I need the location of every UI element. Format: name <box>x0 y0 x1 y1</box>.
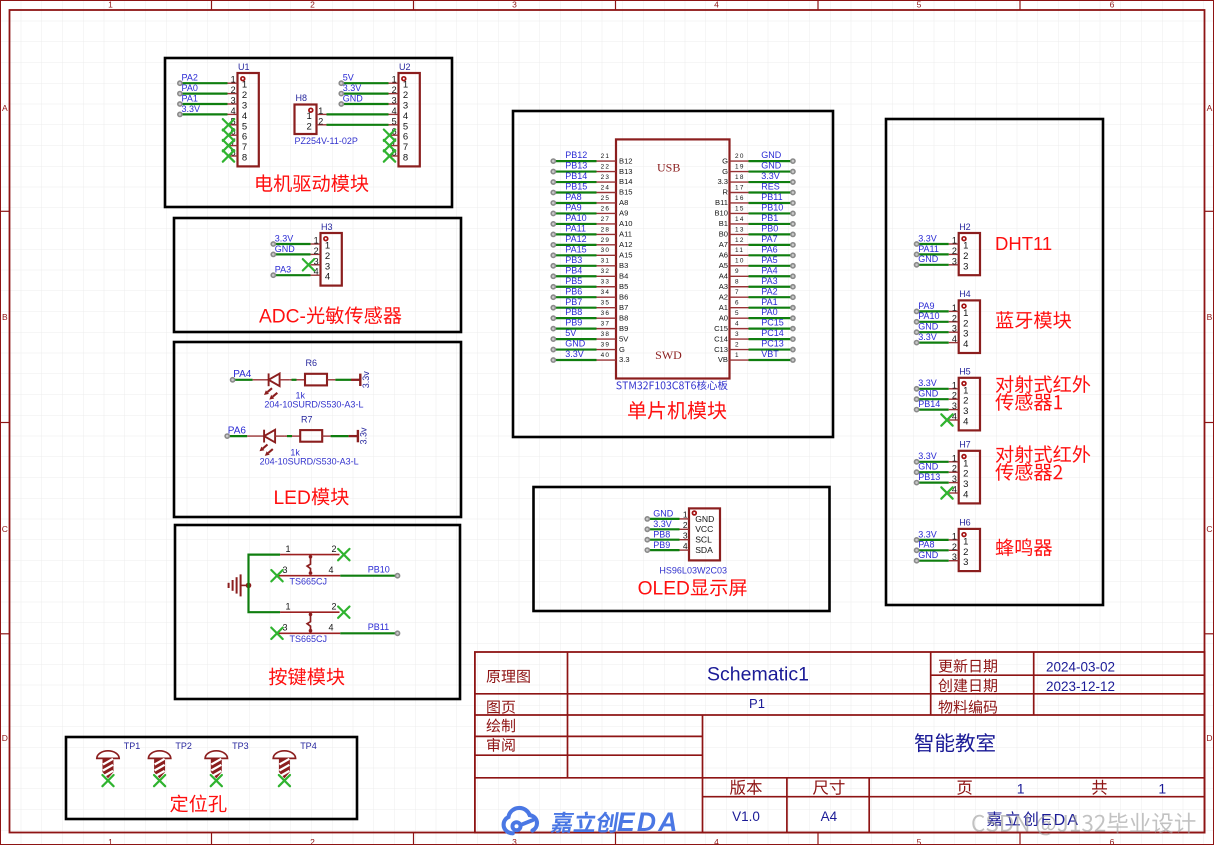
label 对射式红外传感器2 <box>996 445 1090 463</box>
svg-text:PA8: PA8 <box>565 192 581 202</box>
wire PA1 to MCU pin 6 <box>749 306 796 310</box>
svg-text:A4: A4 <box>719 272 728 281</box>
svg-text:204-10SURD/S530-A3-L: 204-10SURD/S530-A3-L <box>260 456 359 466</box>
svg-text:B10: B10 <box>714 209 728 218</box>
svg-text:1: 1 <box>314 236 319 246</box>
svg-text:1: 1 <box>952 236 957 246</box>
svg-text:1: 1 <box>952 453 957 463</box>
svg-text:USB: USB <box>657 160 680 174</box>
svg-text:3: 3 <box>952 256 957 266</box>
switch TS665CJ (PB11) <box>278 602 341 634</box>
svg-text:3: 3 <box>314 256 319 266</box>
svg-text:PC13: PC13 <box>761 339 784 349</box>
svg-text:11: 11 <box>735 247 744 254</box>
label 电机驱动模块 <box>256 174 368 192</box>
svg-text:6: 6 <box>403 132 408 143</box>
svg-text:1: 1 <box>231 75 236 85</box>
test point TP1 (mounting hole screw) <box>97 741 141 778</box>
wire PA8 to H6 pin 2 <box>915 548 949 552</box>
svg-text:C13: C13 <box>714 345 728 354</box>
test point TP3 (mounting hole screw) <box>205 741 249 778</box>
svg-text:4: 4 <box>714 837 719 845</box>
svg-text:H6: H6 <box>959 518 971 528</box>
svg-text:PB11: PB11 <box>761 192 782 202</box>
svg-text:14: 14 <box>735 216 745 223</box>
svg-text:TS665CJ: TS665CJ <box>290 576 328 586</box>
svg-text:4: 4 <box>231 106 236 116</box>
wire 3.3V to H2 pin 1 <box>915 242 949 246</box>
svg-text:1: 1 <box>392 75 397 85</box>
svg-text:B: B <box>1207 312 1213 322</box>
svg-text:PA8: PA8 <box>918 540 934 550</box>
svg-text:PB12: PB12 <box>565 150 587 160</box>
svg-text:2: 2 <box>952 313 957 323</box>
wire PA9 to H4 pin 1 <box>915 309 949 313</box>
svg-text:H3: H3 <box>321 222 333 232</box>
svg-text:A6: A6 <box>719 251 728 260</box>
svg-text:3: 3 <box>512 0 517 10</box>
svg-text:3: 3 <box>963 557 968 568</box>
svg-text:A3: A3 <box>719 282 728 291</box>
svg-text:A: A <box>1207 103 1213 113</box>
svg-text:8: 8 <box>403 153 408 164</box>
svg-text:PA4: PA4 <box>761 265 777 275</box>
connector H8 <box>295 93 327 134</box>
svg-text:1: 1 <box>318 106 323 116</box>
svg-text:27: 27 <box>601 216 611 223</box>
svg-text:4: 4 <box>683 541 688 551</box>
svg-text:GND: GND <box>565 339 586 349</box>
wire GND to H3 pin 2 <box>271 252 310 256</box>
svg-text:4: 4 <box>714 0 719 10</box>
wire GND to H4 pin 3 <box>915 330 949 334</box>
wire GND to H5 pin 2 <box>915 397 949 401</box>
label OLED显示屏 <box>638 579 747 600</box>
svg-text:39: 39 <box>601 342 611 349</box>
svg-text:A15: A15 <box>619 251 633 260</box>
svg-text:C14: C14 <box>714 334 728 343</box>
svg-text:2: 2 <box>325 251 330 262</box>
svg-text:4: 4 <box>329 565 334 575</box>
svg-text:7: 7 <box>403 142 408 153</box>
svg-text:B7: B7 <box>619 303 628 312</box>
wire GND to H7 pin 2 <box>915 470 949 474</box>
svg-text:PB3: PB3 <box>565 255 582 265</box>
svg-text:TP1: TP1 <box>124 741 141 751</box>
wire pin 4 to PB10 <box>340 574 399 578</box>
svg-text:2: 2 <box>403 90 408 101</box>
svg-text:1: 1 <box>1158 780 1166 796</box>
svg-text:16: 16 <box>735 195 745 202</box>
svg-text:PA10: PA10 <box>918 311 939 321</box>
svg-text:OLED: OLED <box>638 579 690 600</box>
svg-text:25: 25 <box>601 195 611 202</box>
svg-text:2: 2 <box>963 547 968 558</box>
svg-text:1: 1 <box>325 241 330 252</box>
wire 3.3V to MCU pin 40 <box>551 358 596 362</box>
svg-text:6: 6 <box>735 300 740 307</box>
svg-text:1: 1 <box>403 80 408 91</box>
svg-text:PA4: PA4 <box>233 369 252 380</box>
svg-text:1: 1 <box>1017 780 1025 796</box>
wire R6 to 3.3v <box>327 379 335 381</box>
svg-text:H2: H2 <box>959 222 971 232</box>
svg-text:4: 4 <box>952 334 957 344</box>
power 3.3v bar <box>349 427 369 445</box>
no-connect X on pin 2 <box>338 549 349 560</box>
wire GND to H2 pin 3 <box>915 263 949 267</box>
svg-text:PA7: PA7 <box>761 234 777 244</box>
svg-text:2: 2 <box>952 464 957 474</box>
svg-text:PA9: PA9 <box>918 301 934 311</box>
svg-text:3.3V: 3.3V <box>343 83 362 93</box>
svg-text:PA10: PA10 <box>565 213 586 223</box>
svg-text:PB1: PB1 <box>761 213 778 223</box>
svg-text:1: 1 <box>242 80 247 91</box>
svg-text:GND: GND <box>653 509 674 519</box>
wire PB14 to MCU pin 23 <box>551 180 596 184</box>
no-connect X on H7 pin 4 <box>941 487 952 498</box>
svg-text:5: 5 <box>917 837 922 845</box>
svg-text:A4: A4 <box>821 809 838 824</box>
svg-text:13: 13 <box>735 226 745 233</box>
wire GND to MCU pin 19 <box>749 169 796 173</box>
wire GND to U2 pin 3 <box>339 102 388 106</box>
svg-text:1: 1 <box>963 458 968 469</box>
svg-text:2: 2 <box>963 318 968 329</box>
svg-text:PA6: PA6 <box>761 244 777 254</box>
svg-text:GND: GND <box>918 462 939 472</box>
svg-text:1: 1 <box>285 602 290 612</box>
svg-text:TS665CJ: TS665CJ <box>290 634 328 644</box>
svg-text:PB0: PB0 <box>761 224 778 234</box>
svg-text:PB13: PB13 <box>918 472 940 482</box>
svg-text:24: 24 <box>601 184 611 191</box>
wire PB11 to MCU pin 16 <box>749 201 796 205</box>
svg-text:PA11: PA11 <box>918 244 939 254</box>
wire 3.3V to H4 pin 4 <box>915 341 949 345</box>
svg-text:2: 2 <box>952 246 957 256</box>
no-connect X on pin 3 <box>271 570 282 581</box>
wire LED anode to R6 <box>292 379 297 381</box>
svg-text:2: 2 <box>952 391 957 401</box>
svg-text:PZ254V-11-02P: PZ254V-11-02P <box>295 136 358 146</box>
svg-text:PB13: PB13 <box>565 161 587 171</box>
svg-text:5V: 5V <box>565 328 576 338</box>
wire 3.3V to OLED pin 2 <box>645 527 679 531</box>
svg-text:PB9: PB9 <box>653 540 670 550</box>
wire PA6 to MCU pin 11 <box>749 253 796 257</box>
svg-text:6: 6 <box>242 132 247 143</box>
svg-text:2: 2 <box>963 251 968 262</box>
svg-text:H7: H7 <box>959 440 971 450</box>
svg-text:EDA: EDA <box>617 807 680 837</box>
svg-text:SDA: SDA <box>695 545 713 555</box>
module box ADC-光敏传感器 <box>174 218 461 332</box>
wire PA6 to LED cathode <box>225 434 247 438</box>
svg-text:4: 4 <box>325 272 330 283</box>
svg-text:GND: GND <box>343 93 364 103</box>
module box 定位孔 <box>66 737 357 819</box>
wire PA0 to U1 pin 2 <box>178 92 228 96</box>
wire PB3 to MCU pin 31 <box>551 264 596 268</box>
svg-text:GND: GND <box>918 389 939 399</box>
svg-text:RES: RES <box>761 182 780 192</box>
svg-text:30: 30 <box>601 247 611 254</box>
power 3.3v bar <box>351 371 371 389</box>
svg-text:2: 2 <box>392 85 397 95</box>
svg-text:36: 36 <box>601 310 611 317</box>
connector U2 <box>389 62 420 167</box>
svg-text:1: 1 <box>735 352 740 359</box>
svg-text:4: 4 <box>735 321 740 328</box>
wire PA11 to H2 pin 2 <box>915 252 949 256</box>
svg-text:TP4: TP4 <box>300 741 317 751</box>
svg-text:4: 4 <box>952 412 957 422</box>
svg-text:2: 2 <box>332 602 337 612</box>
project name 智能教室 <box>915 733 995 752</box>
svg-text:2: 2 <box>963 396 968 407</box>
svg-text:A9: A9 <box>619 209 628 218</box>
svg-text:37: 37 <box>601 321 611 328</box>
wire PA9 to MCU pin 26 <box>551 211 596 215</box>
svg-text:Schematic1: Schematic1 <box>707 664 809 686</box>
svg-text:PA1: PA1 <box>182 93 198 103</box>
svg-text:4: 4 <box>403 111 408 122</box>
svg-text:26: 26 <box>601 205 611 212</box>
svg-text:PB9: PB9 <box>565 318 582 328</box>
JLC EDA logo <box>504 807 680 837</box>
svg-text:7: 7 <box>735 289 740 296</box>
wire GND to H6 pin 3 <box>915 559 949 563</box>
svg-text:3.3: 3.3 <box>717 177 728 186</box>
test point TP4 (mounting hole screw) <box>273 741 317 778</box>
svg-text:B15: B15 <box>619 188 633 197</box>
svg-text:B3: B3 <box>619 261 628 270</box>
svg-text:4: 4 <box>963 417 968 428</box>
svg-text:A10: A10 <box>619 219 633 228</box>
svg-text:9: 9 <box>735 268 740 275</box>
wire pin 4 to PB11 <box>340 631 399 635</box>
wire LED anode to R7 <box>287 435 292 437</box>
svg-text:2023-12-12: 2023-12-12 <box>1046 679 1115 694</box>
svg-text:R7: R7 <box>301 415 313 425</box>
svg-text:A7: A7 <box>719 240 728 249</box>
svg-text:R: R <box>723 188 729 197</box>
svg-text:PA11: PA11 <box>565 224 586 234</box>
svg-text:B14: B14 <box>619 177 633 186</box>
wire 3.3V to H6 pin 1 <box>915 538 949 542</box>
svg-text:3.3V: 3.3V <box>761 171 780 181</box>
svg-text:TP2: TP2 <box>175 741 192 751</box>
resistor R7 1k <box>290 415 322 458</box>
svg-text:C: C <box>2 524 8 534</box>
svg-text:PA9: PA9 <box>565 203 581 213</box>
svg-text:3.3V: 3.3V <box>653 519 672 529</box>
connector H4 <box>949 289 980 353</box>
svg-text:3: 3 <box>403 101 408 112</box>
svg-text:4: 4 <box>963 490 968 501</box>
svg-text:B6: B6 <box>619 292 628 301</box>
wire PB1 to MCU pin 14 <box>749 222 796 226</box>
wire 5V to U2 pin 1 <box>339 81 388 85</box>
svg-text:7: 7 <box>242 142 247 153</box>
switch TS665CJ (PB10) <box>278 544 341 576</box>
svg-text:2: 2 <box>231 85 236 95</box>
svg-text:2: 2 <box>314 246 319 256</box>
svg-text:2: 2 <box>683 520 688 530</box>
label 按键模块 <box>269 668 345 686</box>
svg-text:PA2: PA2 <box>761 286 777 296</box>
wire PA3 to H3 pin 4 <box>271 273 310 277</box>
svg-text:B9: B9 <box>619 324 628 333</box>
label 对射式红外传感器1 <box>996 375 1090 393</box>
svg-text:PA3: PA3 <box>761 276 777 286</box>
svg-text:33: 33 <box>601 279 611 286</box>
svg-text:P1: P1 <box>749 696 765 711</box>
svg-text:B0: B0 <box>719 230 728 239</box>
svg-text:PB11: PB11 <box>368 622 389 632</box>
svg-text:2: 2 <box>318 116 323 126</box>
wire VBT to MCU pin 1 <box>749 358 796 362</box>
svg-text:A5: A5 <box>719 261 728 270</box>
wire 3.3V to H3 pin 1 <box>271 242 310 246</box>
svg-text:1: 1 <box>963 241 968 252</box>
wire PB8 to MCU pin 36 <box>551 316 596 320</box>
svg-text:1: 1 <box>952 380 957 390</box>
ground <box>229 574 249 596</box>
svg-text:22: 22 <box>601 164 611 171</box>
svg-text:VBT: VBT <box>761 349 779 359</box>
svg-text:PB15: PB15 <box>565 182 587 192</box>
svg-text:6: 6 <box>1110 837 1115 845</box>
no-connect X on TP1 <box>102 775 113 786</box>
svg-text:PC15: PC15 <box>761 318 784 328</box>
svg-text:3.3V: 3.3V <box>275 233 294 243</box>
svg-text:3.3V: 3.3V <box>918 378 937 388</box>
svg-text:2: 2 <box>963 469 968 480</box>
svg-text:3: 3 <box>963 479 968 490</box>
wire GND to OLED pin 1 <box>645 517 679 521</box>
svg-text:PB7: PB7 <box>565 297 582 307</box>
wire H8 pin 1 to U2 pin 4 <box>327 113 389 115</box>
svg-text:GND: GND <box>275 244 296 254</box>
svg-text:38: 38 <box>601 331 611 338</box>
svg-text:2: 2 <box>310 0 315 10</box>
wire PA11 to MCU pin 28 <box>551 232 596 236</box>
wire PA1 to U1 pin 3 <box>178 102 228 106</box>
svg-text:3: 3 <box>963 261 968 272</box>
svg-text:A12: A12 <box>619 240 633 249</box>
svg-text:17: 17 <box>735 184 745 191</box>
svg-text:PB8: PB8 <box>565 307 582 317</box>
svg-text:5: 5 <box>242 121 247 132</box>
svg-text:B5: B5 <box>619 282 628 291</box>
wire PB5 to MCU pin 33 <box>551 285 596 289</box>
svg-text:GND: GND <box>918 322 939 332</box>
wire PC15 to MCU pin 4 <box>749 327 796 331</box>
wire PB0 to MCU pin 13 <box>749 232 796 236</box>
wire PB14 to H5 pin 3 <box>915 408 949 412</box>
svg-text:5V: 5V <box>343 73 354 83</box>
company 嘉立创EDA <box>987 811 1080 829</box>
wire PA15 to MCU pin 30 <box>551 253 596 257</box>
label 单片机模块 <box>628 401 726 419</box>
svg-text:PB6: PB6 <box>565 286 582 296</box>
label LED模块 <box>274 488 349 509</box>
svg-text:D: D <box>2 733 8 743</box>
svg-text:5: 5 <box>735 310 740 317</box>
svg-text:1: 1 <box>108 0 113 10</box>
svg-text:18: 18 <box>735 174 745 181</box>
wire PA2 to MCU pin 7 <box>749 295 796 299</box>
no-connect X on TP4 <box>279 775 290 786</box>
svg-text:4: 4 <box>242 111 247 122</box>
wire PB7 to MCU pin 35 <box>551 306 596 310</box>
svg-text:PA5: PA5 <box>761 255 777 265</box>
svg-text:3.3v: 3.3v <box>359 427 369 445</box>
svg-text:2024-03-02: 2024-03-02 <box>1046 660 1115 675</box>
svg-text:D: D <box>1206 733 1212 743</box>
svg-text:PB10: PB10 <box>761 203 783 213</box>
wire PA5 to MCU pin 10 <box>749 264 796 268</box>
svg-text:3: 3 <box>952 474 957 484</box>
no-connect X on TP3 <box>211 775 222 786</box>
svg-text:3.3V: 3.3V <box>918 332 937 342</box>
svg-text:23: 23 <box>601 174 611 181</box>
svg-text:C: C <box>1206 524 1212 534</box>
svg-text:8: 8 <box>735 279 740 286</box>
svg-text:C15: C15 <box>714 324 728 333</box>
label 定位孔 <box>170 795 226 813</box>
svg-text:204-10SURD/S530-A3-L: 204-10SURD/S530-A3-L <box>264 399 363 409</box>
OLED connector HS96L03W2C03 <box>680 508 721 560</box>
svg-text:6: 6 <box>1110 0 1115 10</box>
svg-text:5: 5 <box>917 0 922 10</box>
svg-text:H5: H5 <box>959 367 971 377</box>
svg-text:2: 2 <box>242 90 247 101</box>
svg-text:B4: B4 <box>619 272 628 281</box>
wire PB10 to MCU pin 15 <box>749 211 796 215</box>
svg-text:1: 1 <box>108 837 113 845</box>
module box OLED显示屏 <box>534 487 830 611</box>
svg-text:4: 4 <box>329 623 334 633</box>
svg-text:3.3v: 3.3v <box>361 371 371 389</box>
module box sensors <box>886 119 1103 605</box>
wire PB9 to OLED pin 4 <box>645 548 679 552</box>
wire RES to MCU pin 17 <box>749 190 796 194</box>
svg-text:28: 28 <box>601 226 611 233</box>
wire PB4 to MCU pin 32 <box>551 274 596 278</box>
svg-text:2: 2 <box>310 837 315 845</box>
svg-text:B13: B13 <box>619 167 633 176</box>
svg-text:A2: A2 <box>719 292 728 301</box>
svg-text:DHT11: DHT11 <box>995 233 1052 254</box>
svg-text:19: 19 <box>735 164 745 171</box>
svg-text:GND: GND <box>761 161 782 171</box>
wire PA7 to MCU pin 12 <box>749 243 796 247</box>
svg-text:34: 34 <box>601 289 611 296</box>
svg-text:H8: H8 <box>296 93 308 103</box>
svg-text:32: 32 <box>601 268 611 275</box>
svg-text:U2: U2 <box>399 62 411 72</box>
module box LED模块 <box>174 342 461 517</box>
svg-text:PA6: PA6 <box>228 425 247 436</box>
svg-text:1: 1 <box>285 544 290 554</box>
wire ground bus <box>249 555 281 613</box>
svg-text:G: G <box>722 156 728 165</box>
value STM32F103C8T6核心板 <box>616 380 727 390</box>
